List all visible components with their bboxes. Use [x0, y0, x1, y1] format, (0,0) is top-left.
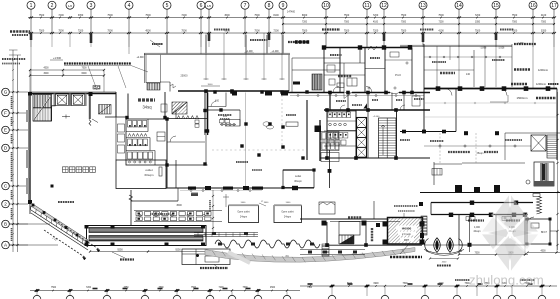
SW entrance ramp canopy [30, 203, 100, 260]
stair S1 [33, 95, 52, 122]
svg-text:4100: 4100 [373, 21, 379, 23]
svg-text:1/6: 1/6 [207, 4, 212, 8]
top-right mech rooms [292, 42, 412, 92]
svg-text:G: G [4, 90, 8, 95]
south lobby block walls [300, 201, 425, 247]
hall annotation + fixtures [218, 115, 298, 129]
svg-text:4500: 4500 [540, 250, 546, 252]
elevator E2 [69, 94, 87, 107]
bottom grid bubbles (half visible) [33, 295, 546, 299]
spine pipe risers [290, 95, 424, 97]
svg-text:7500: 7500 [58, 29, 64, 32]
svg-text:7200: 7200 [302, 21, 308, 23]
mid-right room block [320, 91, 430, 160]
plaza steps edge [194, 232, 258, 237]
McDonalds restaurant label [63, 167, 96, 173]
svg-text:6900: 6900 [373, 283, 379, 285]
svg-text:7500: 7500 [254, 14, 260, 17]
right margin annotations [490, 44, 559, 102]
svg-text:4100: 4100 [541, 14, 547, 17]
svg-text:7500: 7500 [254, 29, 260, 32]
svg-text:BFC?: BFC? [541, 231, 548, 234]
svg-text:I40/I00: I40/I00 [402, 227, 412, 231]
svg-text:+2.300: +2.300 [136, 57, 144, 59]
svg-text:3000: 3000 [43, 73, 49, 75]
left grid row bubbles [2, 88, 58, 249]
svg-text:1500mm: 1500mm [517, 96, 529, 100]
svg-text:8: 8 [268, 3, 271, 9]
far right top rooms [244, 43, 524, 89]
right wing top wall [424, 86, 557, 160]
svg-text:34sq: 34sq [142, 105, 152, 110]
svg-text:P4.0: P4.0 [395, 73, 401, 77]
svg-text:7500: 7500 [39, 29, 45, 32]
svg-text:7500: 7500 [344, 29, 350, 32]
svg-text:7500: 7500 [474, 252, 480, 254]
transformer room hatched [388, 218, 423, 245]
svg-text:30sqm: 30sqm [294, 179, 302, 183]
svg-text:24sqm: 24sqm [284, 216, 291, 219]
svg-text:3: 3 [90, 3, 93, 9]
svg-text:MRT: MRT [404, 239, 410, 242]
svg-text:4500: 4500 [270, 287, 276, 289]
svg-text:7500: 7500 [512, 14, 518, 17]
svg-text:40sqm: 40sqm [473, 230, 480, 233]
svg-text:Open outlet: Open outlet [281, 211, 294, 214]
svg-text:7200: 7200 [86, 287, 92, 289]
stair S2 hatched wedge [172, 102, 187, 114]
plaza scallop edge [215, 240, 320, 248]
svg-text:15: 15 [493, 3, 499, 9]
svg-text:1200mm: 1200mm [536, 82, 546, 86]
svg-text:14: 14 [456, 3, 462, 9]
bottom dimension strip [30, 280, 557, 296]
svg-text:outlet: outlet [295, 174, 302, 178]
hall columns [206, 90, 332, 188]
meeting room 34sq [105, 92, 167, 119]
escalator up near lobby [99, 105, 112, 115]
svg-text:9250: 9250 [117, 248, 123, 251]
svg-text:7500: 7500 [51, 287, 57, 289]
svg-text:7500: 7500 [302, 29, 308, 32]
svg-text:13: 13 [420, 3, 426, 9]
svg-text:10: 10 [323, 3, 329, 9]
svg-text:7500: 7500 [181, 29, 187, 32]
svg-text:6900: 6900 [224, 29, 230, 32]
svg-text:60sqm: 60sqm [144, 173, 154, 177]
svg-text:8100: 8100 [273, 14, 279, 17]
svg-text:7200: 7200 [273, 29, 279, 32]
svg-text:4500: 4500 [145, 29, 151, 32]
grid lines extending into plan [31, 33, 554, 92]
svg-text:3500: 3500 [208, 84, 214, 86]
central spine wall [200, 91, 430, 99]
corridor and rooms right of toilets [125, 93, 240, 189]
svg-text:7500: 7500 [475, 29, 481, 32]
svg-text:2.0 sqm: 2.0 sqm [402, 233, 411, 236]
svg-text:3350: 3350 [541, 29, 547, 32]
svg-text:12: 12 [381, 3, 387, 9]
rooms east of hall 320-340 [315, 120, 340, 162]
mid-right block labels [336, 96, 424, 140]
svg-text:4500: 4500 [176, 204, 182, 207]
svg-text:6900: 6900 [302, 14, 308, 17]
escalator bank [85, 225, 207, 246]
right wing south walls [431, 201, 533, 246]
svg-text:11: 11 [364, 3, 369, 9]
west niche fixtures [116, 94, 125, 161]
stair S3 [379, 118, 397, 158]
svg-text:7200: 7200 [78, 29, 84, 32]
svg-text:7500: 7500 [107, 29, 113, 32]
svg-text:7500: 7500 [401, 29, 407, 32]
svg-text:4: 4 [128, 3, 131, 9]
svg-text:7500: 7500 [541, 21, 547, 23]
right square room [526, 217, 558, 246]
svg-text:+1.400: +1.400 [245, 51, 253, 53]
revolving doors [424, 215, 472, 266]
outlet 60sqm room [116, 160, 176, 189]
transformer leader label [390, 245, 422, 257]
McDonalds block outer walls [26, 92, 116, 204]
svg-text:3350: 3350 [78, 14, 84, 17]
left hatched pier near 420 [419, 202, 427, 238]
svg-text:400: 400 [215, 100, 220, 103]
left margin title text [2, 32, 63, 64]
svg-text:147400: 147400 [287, 11, 296, 14]
svg-text:7: 7 [244, 3, 247, 9]
toilet block [126, 119, 167, 165]
top grid column bubbles and dimension strip [27, 1, 558, 47]
svg-text:5: 5 [166, 3, 169, 9]
right lower rooms 130-160 [400, 130, 560, 163]
lobby west leader text [51, 185, 75, 203]
lobby dim leaders [176, 190, 266, 233]
svg-text:7500: 7500 [344, 14, 350, 17]
elevator bank (4 cells) [357, 118, 367, 158]
svg-text:7500: 7500 [107, 14, 113, 17]
svg-text:7500: 7500 [401, 14, 407, 17]
svg-text:6: 6 [200, 3, 203, 9]
svg-text:7500: 7500 [512, 21, 518, 23]
pump room [182, 249, 230, 268]
svg-text:7500: 7500 [402, 283, 408, 285]
top courtyard terrace [144, 35, 300, 96]
far right stair + expansion joint [533, 162, 554, 214]
svg-text:7500: 7500 [401, 21, 407, 23]
svg-text:2: 2 [51, 3, 54, 9]
outlet 30sqm room [263, 168, 316, 189]
curved gray walkway [205, 244, 415, 263]
svg-text:16: 16 [530, 3, 536, 9]
svg-text:+1.400: +1.400 [271, 51, 279, 53]
svg-text:1: 1 [30, 3, 33, 9]
svg-text:35sqm: 35sqm [477, 153, 484, 155]
svg-text:7500: 7500 [344, 21, 350, 23]
svg-text:4100: 4100 [438, 29, 444, 32]
svg-text:B: B [4, 222, 7, 227]
long annotation note [30, 57, 148, 90]
elevator E1 [54, 94, 69, 107]
bottom dim under escalator [89, 248, 207, 259]
svg-text:7200: 7200 [475, 14, 481, 17]
svg-text:7200: 7200 [373, 14, 379, 17]
lobby walls below elevators [33, 92, 98, 126]
svg-text:4500: 4500 [43, 68, 49, 70]
svg-text:7500: 7500 [438, 14, 444, 17]
svg-text:3350: 3350 [475, 21, 481, 23]
right wing middle walls [420, 89, 560, 194]
svg-text:7200: 7200 [438, 21, 444, 23]
svg-text:25000: 25000 [181, 75, 189, 78]
svg-text:7200: 7200 [373, 29, 379, 32]
service counter cluster [134, 211, 222, 222]
svg-text:outlet: outlet [145, 168, 153, 172]
small room 400 right of corridor [220, 110, 241, 126]
gym outlet box 2 [274, 204, 302, 222]
svg-text:Open outlet: Open outlet [237, 211, 250, 214]
top dimension lines [28, 11, 556, 44]
zhulong watermark diamond [481, 194, 539, 272]
svg-text:7500: 7500 [39, 14, 45, 17]
svg-text:zhulong.com: zhulong.com [469, 273, 544, 288]
svg-text:7500: 7500 [81, 68, 87, 70]
upper-middle room details [324, 52, 412, 93]
hall dashed service line [212, 93, 306, 189]
svg-text:1/2: 1/2 [68, 4, 73, 8]
svg-text:9250: 9250 [175, 248, 181, 251]
rooftop fixture above [93, 40, 163, 89]
svg-text:4500: 4500 [224, 14, 230, 17]
svg-text:17: 17 [551, 3, 557, 9]
svg-text:7200: 7200 [58, 14, 64, 17]
gym outlet box 1 [229, 202, 292, 222]
transformer upper label [394, 206, 418, 218]
svg-text:-1.926: -1.926 [498, 48, 505, 50]
svg-text:E: E [4, 128, 7, 133]
svg-text:7500: 7500 [145, 14, 151, 17]
svg-text:1200mm: 1200mm [538, 68, 548, 72]
svg-text:7200: 7200 [181, 14, 187, 17]
svg-text:4,000: 4,000 [474, 226, 481, 229]
left vertical dimension lines [9, 50, 21, 252]
small toilets mid-right [327, 111, 356, 145]
right edge vertical dim [556, 92, 558, 250]
svg-text:24sqm: 24sqm [240, 216, 247, 219]
svg-text:-1.898: -1.898 [480, 48, 487, 50]
svg-text:140: 140 [466, 73, 471, 76]
svg-text:F: F [4, 111, 7, 116]
svg-text:9: 9 [282, 3, 285, 9]
svg-text:+1.500: +1.500 [53, 56, 62, 60]
right wing bottom dim lines [458, 231, 560, 256]
svg-text:6000: 6000 [81, 73, 87, 75]
right wing room labels [466, 217, 520, 234]
svg-text:2: 2 [4, 202, 7, 207]
svg-text:7500: 7500 [307, 287, 313, 289]
hall lower walls [129, 186, 314, 226]
